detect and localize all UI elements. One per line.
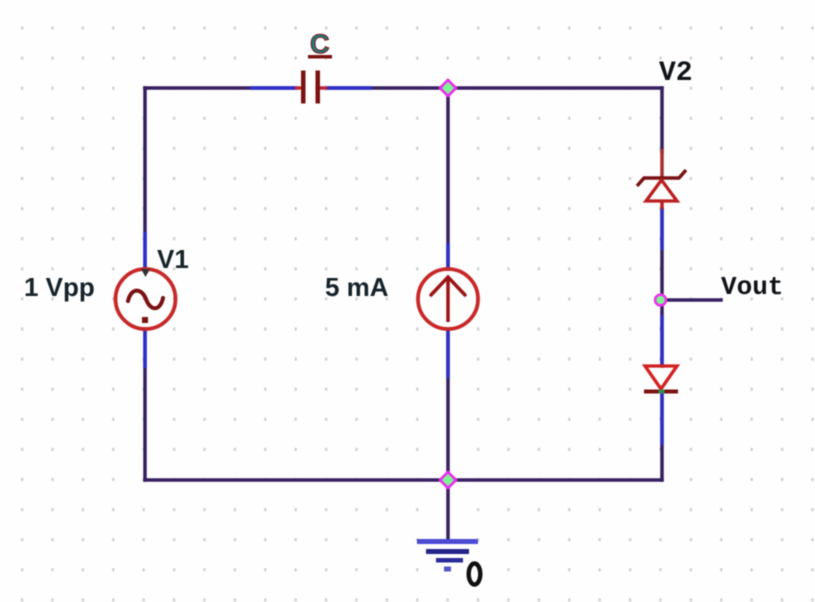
svg-text:Vout: Vout [721, 272, 783, 302]
svg-text:C: C [310, 29, 330, 59]
svg-text:V2: V2 [659, 58, 693, 89]
svg-text:5 mA: 5 mA [325, 272, 389, 302]
svg-text:1 Vpp: 1 Vpp [24, 272, 95, 302]
svg-text:V1: V1 [157, 244, 189, 274]
